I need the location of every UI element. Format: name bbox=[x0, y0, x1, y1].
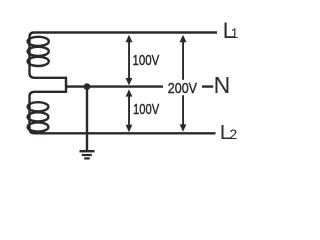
wire N line bbox=[66, 85, 213, 87]
svg-text:200V: 200V bbox=[168, 81, 198, 97]
svg-text:N: N bbox=[214, 72, 231, 98]
arrow 100V lower (N to L2) bbox=[126, 89, 133, 132]
wire L1 line with top coil left bend bbox=[30, 33, 218, 78]
arrow 100V upper (L1 to N) bbox=[126, 35, 133, 86]
svg-text:100V: 100V bbox=[133, 53, 160, 69]
arrow 200V (L1 to L2) bbox=[180, 35, 187, 132]
svg-text:1: 1 bbox=[231, 25, 239, 41]
wire lower coil top lead with left bend and L2 line bbox=[30, 92, 216, 134]
svg-text:100V: 100V bbox=[133, 102, 160, 118]
ground symbol bbox=[80, 151, 95, 158]
svg-text:2: 2 bbox=[230, 126, 238, 142]
wire neutral to ground bbox=[86, 87, 88, 151]
wire center-tap bracket bbox=[65, 77, 67, 93]
coil T1 lower winding loops bbox=[28, 102, 49, 111]
label 200V with white backing bbox=[163, 80, 202, 95]
node center tap junction bbox=[84, 83, 91, 90]
coil T1 upper winding loops bbox=[28, 37, 49, 46]
